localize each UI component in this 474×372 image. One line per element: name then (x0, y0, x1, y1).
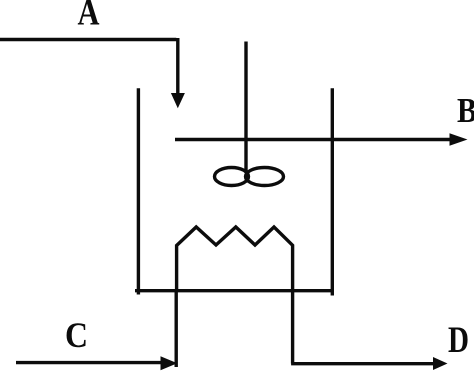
impeller right blade (246, 168, 284, 186)
impeller left blade (215, 168, 249, 186)
heating coil zigzag (177, 227, 293, 289)
coil outlet downcomer pipe (291, 290, 294, 364)
stream A arrowhead (171, 93, 185, 108)
coil inlet riser pipe (174, 290, 177, 367)
svg-text:A: A (78, 0, 100, 34)
vessel left wall (137, 88, 140, 294)
stream A feed line (0, 38, 178, 95)
vessel bottom (135, 289, 334, 292)
stream C inlet line (16, 361, 162, 364)
stream B outlet line (175, 138, 453, 141)
stirrer shaft (244, 42, 247, 174)
stream B arrowhead (450, 133, 468, 146)
stream C arrowhead (161, 356, 178, 370)
svg-text:D: D (448, 320, 469, 361)
stream D outlet line (291, 362, 434, 365)
svg-text:C: C (65, 315, 88, 355)
stream D arrowhead (433, 357, 448, 370)
vessel right wall (331, 88, 334, 295)
svg-text:B: B (457, 91, 474, 130)
